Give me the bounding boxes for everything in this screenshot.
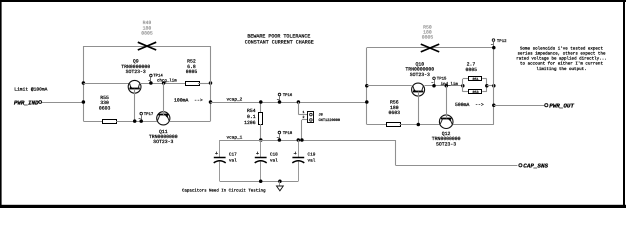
- wire capacitor ground rail: [220, 181, 299, 183]
- svg-text:Capacitors Need In Circuit Tes: Capacitors Need In Circuit Testing: [182, 188, 266, 193]
- svg-text:chrg_lim: chrg_lim: [157, 78, 177, 83]
- node junction ground stem: [278, 179, 282, 183]
- svg-text:Q12: Q12: [442, 131, 451, 137]
- svg-text:R54: R54: [247, 108, 256, 114]
- svg-text:R55: R55: [100, 95, 109, 101]
- svg-text:CONSTANT CURRENT CHARGE: CONSTANT CURRENT CHARGE: [245, 40, 314, 46]
- wire Q11 collector to rail: [170, 121, 211, 123]
- node junction vcap_2 branch: [209, 100, 213, 104]
- wire top loop right block: [367, 47, 494, 49]
- svg-text:TRN0000000: TRN0000000: [149, 134, 178, 140]
- svg-text:R51: R51: [473, 77, 479, 81]
- wire ind_lim Q10 collector: [425, 85, 463, 87]
- svg-text:SOT23-3: SOT23-3: [436, 142, 456, 148]
- wire R55 to Q11: [116, 121, 157, 123]
- svg-text:R49: R49: [143, 20, 152, 26]
- svg-text:PWR_IND: PWR_IND: [14, 99, 39, 106]
- port PWR_OUT: [545, 104, 548, 107]
- testpoint TP17: [140, 112, 143, 115]
- svg-text:2: 2: [302, 115, 304, 119]
- node junction rail/Q9 emitter: [82, 81, 86, 85]
- node junction rail/vcap_2: [365, 100, 369, 104]
- svg-text:PWR_OUT: PWR_OUT: [549, 103, 574, 110]
- node junction rail/PWR_IND: [82, 100, 86, 104]
- port PWR_IND: [39, 101, 42, 104]
- node junction TP16: [278, 100, 282, 104]
- node junction Q9 base: [133, 119, 137, 123]
- resistor R52: [186, 82, 200, 86]
- svg-text:val: val: [308, 157, 316, 163]
- node junction R54 bottom: [259, 138, 263, 142]
- resistor R53: [463, 91, 469, 93]
- wire J8 pin 1: [298, 102, 300, 115]
- svg-text:180: 180: [143, 25, 152, 31]
- svg-text:val: val: [229, 157, 237, 163]
- wire vcap_2: [211, 102, 367, 104]
- capacitor C18: [260, 140, 262, 157]
- testpoint TP15: [433, 77, 436, 80]
- sheet border bottom: [0, 205, 626, 208]
- svg-text:0805: 0805: [186, 69, 198, 75]
- node junction R51 R53 right: [485, 84, 489, 88]
- svg-text:TRN0000000: TRN0000000: [121, 64, 150, 70]
- svg-text:C19: C19: [308, 153, 316, 158]
- resistor R55: [103, 120, 117, 124]
- sheet border left: [0, 0, 2, 208]
- wire vcap_1: [220, 140, 396, 142]
- svg-text:TP14: TP14: [153, 74, 163, 79]
- wire vcap_1 to CAP_SNS: [395, 140, 397, 165]
- sheet border right: [623, 0, 625, 208]
- svg-text:0805: 0805: [422, 35, 434, 41]
- node junction R51 R53 left: [461, 84, 465, 88]
- svg-text:6.8: 6.8: [187, 64, 196, 70]
- transistor Q10: [412, 83, 425, 96]
- testpoint TP14: [150, 74, 153, 77]
- svg-text:TP17: TP17: [144, 112, 154, 117]
- wire top loop left block: [83, 46, 210, 48]
- node junction TP17: [139, 119, 143, 123]
- wire right rail PWR_OUT net: [493, 48, 495, 125]
- svg-text:2.7: 2.7: [467, 62, 476, 68]
- node junction Q11 base / chrg_lim: [162, 81, 166, 85]
- svg-text:CAP_SNS: CAP_SNS: [523, 163, 548, 170]
- testpoint TP12: [492, 39, 495, 42]
- svg-text:R56: R56: [390, 100, 399, 106]
- wire chrg_lim Q9 collector to R52: [140, 83, 187, 85]
- transistor Q9: [128, 80, 141, 93]
- wire Q9 emitter to rail: [83, 83, 129, 85]
- svg-text:Q9: Q9: [133, 59, 139, 65]
- svg-text:R53: R53: [473, 90, 479, 94]
- svg-text:C18: C18: [270, 153, 278, 158]
- testpoint TP18: [278, 131, 281, 134]
- wire right rail left block: [210, 46, 212, 121]
- svg-text:1206: 1206: [244, 120, 256, 126]
- wire left rail PWR_IND net: [83, 46, 85, 121]
- node junction rail/ind_lim out: [492, 84, 496, 88]
- svg-text:CNT1220000: CNT1220000: [319, 118, 341, 123]
- capacitor C19: [298, 140, 300, 157]
- svg-text:C17: C17: [229, 153, 237, 158]
- svg-text:val: val: [270, 157, 278, 163]
- node junction TP18: [278, 138, 282, 142]
- svg-text:J8: J8: [319, 113, 323, 118]
- svg-text:0805: 0805: [465, 67, 477, 73]
- testpoint TP16: [278, 93, 281, 96]
- svg-text:SOT23-3: SOT23-3: [153, 139, 173, 145]
- svg-text:ind_lim: ind_lim: [441, 82, 459, 87]
- wire R56 to Q12: [400, 124, 440, 126]
- port CAP_SNS: [519, 164, 522, 167]
- node junction PWR_OUT branch: [492, 103, 496, 107]
- sheet border top: [0, 0, 626, 2]
- wire PWR_IND stub: [42, 102, 84, 104]
- DNP cross on R49: [138, 42, 156, 50]
- transistor Q12: [439, 115, 453, 129]
- svg-text:Some solenoids i've tested exp: Some solenoids i've tested expect: [520, 45, 603, 51]
- wire loop to right rail: [487, 85, 494, 87]
- svg-text:vcap_2: vcap_2: [227, 97, 243, 102]
- svg-text:TRN0000000: TRN0000000: [405, 67, 434, 73]
- wire left rail right block: [366, 48, 368, 125]
- svg-text:0805: 0805: [141, 31, 153, 37]
- node junction rail/Q10 emitter: [365, 84, 369, 88]
- node junction Q10 base: [417, 123, 421, 127]
- node junction R54 top: [259, 100, 263, 104]
- svg-text:TRN0000000: TRN0000000: [432, 136, 461, 142]
- wire parallel loop left side: [462, 79, 464, 92]
- node junction TP12 corner: [492, 46, 496, 50]
- resistor R51: [463, 78, 469, 80]
- wire Q10 emitter to rail: [367, 85, 412, 87]
- svg-text:vcap_1: vcap_1: [227, 135, 243, 140]
- svg-text:1: 1: [302, 110, 304, 114]
- svg-text:SOT23-3: SOT23-3: [410, 72, 430, 78]
- node junction Q12 base / ind_lim: [445, 84, 449, 88]
- wire PWR_OUT stub: [494, 105, 545, 107]
- svg-text:500mA -->: 500mA -->: [455, 102, 484, 108]
- node junction C19: [297, 138, 301, 142]
- svg-text:R52: R52: [187, 59, 196, 65]
- wire parallel loop right side: [486, 79, 488, 92]
- svg-text:Limit @100mA: Limit @100mA: [14, 86, 47, 92]
- wire bottom loop left block: [83, 121, 102, 123]
- svg-text:330: 330: [100, 100, 109, 106]
- svg-text:SOT23-3: SOT23-3: [126, 69, 146, 75]
- svg-text:0603: 0603: [99, 106, 111, 112]
- transistor Q11: [157, 112, 170, 125]
- resistor R56: [387, 123, 401, 127]
- wire R52 to right rail: [198, 83, 211, 85]
- node junction C18 ground: [259, 179, 263, 183]
- svg-text:180: 180: [390, 105, 399, 111]
- node junction TP15: [432, 84, 436, 88]
- ground: [279, 181, 281, 186]
- svg-text:TP12: TP12: [497, 39, 507, 44]
- svg-text:TP18: TP18: [283, 131, 293, 136]
- svg-text:TP16: TP16: [283, 93, 293, 98]
- node junction TP14: [149, 81, 153, 85]
- node junction rail/R52: [209, 81, 213, 85]
- svg-text:100mA -->: 100mA -->: [174, 98, 203, 104]
- capacitor C17: [219, 140, 221, 157]
- resistor R54: [260, 102, 262, 112]
- connector J8: [308, 112, 314, 123]
- node junction J8 pin1 branch: [297, 100, 301, 104]
- svg-text:0603: 0603: [389, 110, 401, 116]
- wire J8 pin 2: [301, 120, 303, 140]
- svg-text:TP15: TP15: [437, 77, 447, 82]
- wire R56 to rail: [367, 124, 386, 126]
- wire Q12 collector to rail: [453, 124, 494, 126]
- DNP cross on R50: [421, 44, 439, 52]
- node junction J8 pin2 branch: [300, 138, 304, 142]
- svg-text:0.1: 0.1: [247, 114, 256, 120]
